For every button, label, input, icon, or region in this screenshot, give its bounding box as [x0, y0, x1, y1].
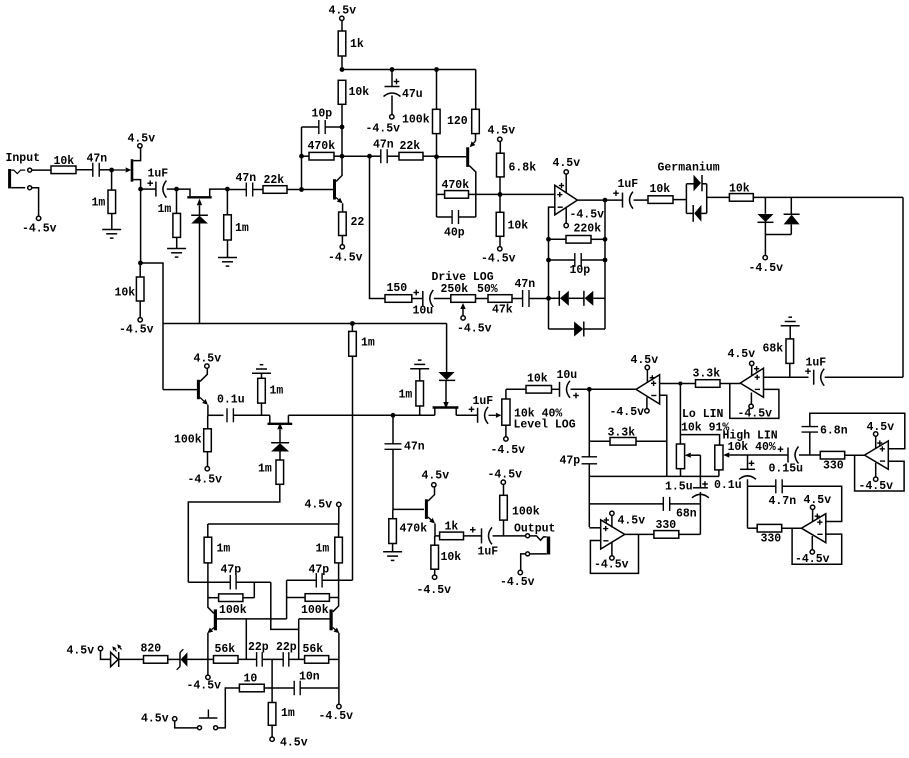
capacitor C12 10u — [552, 388, 560, 390]
resistor R37 820 — [119, 658, 144, 660]
resistor R29 3.3k fb — [589, 440, 610, 442]
pot P1 Drive 250k — [451, 295, 476, 303]
node fb 10p right — [603, 258, 608, 263]
wire C1-gate — [99, 169, 112, 171]
resistor R12 470k — [437, 193, 445, 195]
wire 470k row left — [342, 155, 370, 157]
wire R5 to Q3 base — [287, 189, 302, 191]
svg-text:10k: 10k — [349, 86, 370, 99]
resistor R19 1m — [351, 324, 353, 332]
svg-text:47n: 47n — [236, 172, 257, 185]
wire long top — [163, 323, 447, 325]
resistor R2 1m — [111, 170, 113, 190]
wire Q7 base — [393, 508, 424, 510]
resistor R44 47k — [476, 298, 489, 300]
capacitor C5 47u — [391, 70, 393, 87]
node fb 220k right — [603, 237, 608, 242]
svg-text:1m: 1m — [258, 463, 272, 476]
top rail — [342, 69, 476, 71]
capacitor C27 10u — [413, 292, 419, 294]
pot P2 Level 10k — [502, 399, 510, 425]
wire C2 out — [167, 188, 177, 190]
svg-text:4.5v: 4.5v — [728, 348, 756, 361]
svg-text:10k: 10k — [650, 183, 671, 196]
svg-text:220k: 220k — [574, 223, 602, 236]
capacitor C23 22p — [256, 652, 258, 667]
svg-text:22: 22 — [351, 216, 365, 229]
svg-text:10u: 10u — [413, 305, 434, 318]
resistor R35b 1m right — [338, 524, 340, 537]
svg-text:Output: Output — [514, 523, 555, 536]
wire 330 up — [699, 492, 701, 534]
svg-text:10k: 10k — [527, 373, 548, 386]
capacitor C21 47p left — [188, 581, 230, 583]
wire Q1 source down — [140, 189, 142, 263]
resistor R24 1k — [435, 535, 440, 537]
diode D12 zener — [168, 658, 181, 660]
svg-text:1m: 1m — [158, 203, 172, 216]
svg-text:4.5v: 4.5v — [280, 737, 308, 750]
svg-text:10k 40%: 10k 40% — [728, 441, 776, 454]
wire to multivibrator — [188, 484, 279, 582]
svg-text:47n: 47n — [373, 139, 394, 152]
op-amp U3 — [740, 368, 763, 397]
resistor R36 100k right — [287, 597, 306, 599]
wire emitter row — [208, 414, 224, 416]
svg-text:330: 330 — [761, 533, 782, 546]
capacitor C3 47n — [227, 189, 246, 191]
node input gate — [109, 168, 114, 173]
wire Lo to High — [680, 435, 719, 446]
svg-text:100k: 100k — [512, 506, 540, 519]
resistor R21 1m — [261, 373, 263, 378]
svg-text:150: 150 — [387, 282, 408, 295]
svg-text:4.5v: 4.5v — [631, 354, 659, 367]
resistor R16 10k — [634, 199, 649, 201]
capacitor C1 47n — [92, 163, 94, 177]
capacitor C13 47p — [582, 456, 598, 458]
svg-text:0.1u: 0.1u — [217, 394, 245, 407]
ground G2 — [176, 237, 178, 248]
capacitor C24 22p — [282, 652, 284, 667]
input jack J1 — [8, 169, 11, 188]
wire mv 4.5v feed — [337, 502, 341, 506]
svg-text:1m: 1m — [217, 543, 231, 556]
node fb 10p left — [546, 258, 551, 263]
svg-text:1m: 1m — [399, 389, 413, 402]
wire to germanium — [673, 199, 686, 201]
wire U1 feedback — [549, 207, 555, 298]
wire mv rail — [208, 523, 339, 525]
svg-text:10k: 10k — [115, 287, 136, 300]
svg-text:22k: 22k — [400, 140, 421, 153]
svg-text:1uF: 1uF — [618, 178, 639, 191]
resistor R4 1m — [226, 189, 228, 215]
svg-text:Level LOG: Level LOG — [514, 419, 576, 432]
wire left col to Q5 base — [140, 263, 163, 390]
node 10p right — [340, 125, 345, 130]
node after C2 — [174, 187, 179, 192]
svg-text:47p: 47p — [221, 564, 242, 577]
node U1 output — [603, 198, 608, 203]
svg-text:56k: 56k — [303, 643, 324, 656]
resistor R8 10k — [338, 80, 346, 104]
svg-text:100k: 100k — [219, 604, 247, 617]
svg-text:100k: 100k — [402, 114, 430, 127]
svg-text:1uF: 1uF — [806, 357, 827, 370]
resistor R40 10 — [239, 684, 264, 692]
svg-text:330: 330 — [656, 519, 677, 532]
resistor R41 1m bottom — [268, 703, 276, 726]
op-amp U4 — [601, 520, 625, 549]
resistor R18 10k — [136, 277, 144, 301]
svg-text:4.5v: 4.5v — [305, 499, 333, 512]
node Q1 source — [138, 187, 143, 192]
resistor R23 470k — [392, 509, 394, 518]
svg-text:-4.5v: -4.5v — [749, 262, 784, 275]
node rail 2 — [390, 67, 395, 72]
wire U3 out — [764, 376, 809, 378]
op-amp U2 — [636, 375, 660, 404]
LED D11 — [98, 646, 102, 650]
op-amp U6 — [801, 514, 825, 543]
wire right edge — [902, 197, 904, 377]
resistor R45 22k — [399, 152, 423, 160]
wire R10 down — [436, 134, 438, 217]
resistor R20 100k — [207, 415, 209, 429]
capacitor C11 1uF — [477, 408, 479, 423]
svg-text:-4.5v: -4.5v — [328, 252, 363, 265]
capacitor C6 40p — [437, 216, 453, 218]
svg-text:10k: 10k — [508, 220, 529, 233]
svg-text:10p: 10p — [312, 108, 333, 121]
capacitor C25 10n — [293, 681, 295, 696]
svg-text:0.15u: 0.15u — [769, 463, 804, 476]
svg-text:470k: 470k — [400, 523, 428, 536]
resistor R32 330 — [820, 451, 844, 459]
resistor R26 1m — [419, 369, 421, 381]
svg-text:Input: Input — [6, 152, 41, 165]
wire bottom rail — [589, 475, 719, 477]
svg-text:1m: 1m — [92, 197, 106, 210]
svg-text:68n: 68n — [676, 508, 697, 521]
svg-text:820: 820 — [141, 643, 162, 656]
wire U4 out — [625, 533, 654, 535]
wire input to R1 — [32, 169, 51, 171]
wire Q4 collector to U1 — [476, 193, 555, 195]
svg-text:10k: 10k — [54, 155, 75, 168]
resistor R17 10k — [707, 196, 730, 198]
capacitor C8 1uF — [622, 193, 624, 208]
resistor R15 220k — [549, 238, 567, 240]
resistor R39 56k right — [305, 656, 329, 664]
pot P4 High LIN — [715, 445, 723, 470]
resistor R11 120 — [475, 70, 477, 110]
capacitor C28 47n top — [380, 149, 382, 163]
svg-text:10: 10 — [244, 673, 258, 686]
wire QL collector — [208, 563, 214, 614]
wire Q8 to C11 — [456, 414, 477, 416]
svg-text:47n: 47n — [87, 153, 108, 166]
svg-text:4.5v: 4.5v — [488, 125, 516, 138]
svg-text:-4.5v: -4.5v — [319, 710, 354, 723]
wire U4 feedback — [590, 534, 638, 573]
node 47n tap — [391, 413, 396, 418]
transistor QL — [214, 609, 217, 630]
resistor R38 56k left — [214, 656, 239, 664]
svg-text:-4.5v: -4.5v — [481, 253, 516, 266]
wire C27 to pot — [434, 298, 451, 300]
svg-text:22p: 22p — [276, 641, 297, 654]
capacitor C2 1uF — [141, 188, 156, 190]
wire coupling left to right base — [271, 582, 299, 629]
wire U1 out — [577, 199, 622, 201]
capacitor C17 0.1u — [747, 455, 749, 469]
diode D4 return — [548, 298, 550, 329]
ground G5 inverted — [410, 368, 429, 370]
svg-text:10k: 10k — [729, 183, 750, 196]
svg-text:4.5v: 4.5v — [553, 157, 581, 170]
node drive feedback — [546, 296, 551, 301]
svg-text:4.5v: 4.5v — [141, 713, 169, 726]
resistor R9 1k — [338, 31, 346, 56]
wire 3.3k to U3 — [720, 383, 740, 385]
node 1m tap — [350, 321, 355, 326]
ground G4 inverted — [252, 372, 271, 374]
svg-text:4.7n: 4.7n — [769, 495, 797, 508]
resistor R28 3.3k — [696, 380, 721, 388]
svg-text:3.3k: 3.3k — [693, 368, 721, 381]
wire U2 minus — [660, 395, 667, 476]
node 6.8k junction — [498, 192, 503, 197]
resistor R13 6.8k — [499, 177, 501, 195]
svg-text:-4.5v: -4.5v — [488, 469, 523, 482]
svg-text:-4.5v: -4.5v — [491, 444, 526, 457]
wire to U2 — [589, 388, 636, 390]
svg-text:0.1u: 0.1u — [714, 479, 742, 492]
resistor R3 1m — [176, 189, 178, 213]
resistor R10 100k — [436, 70, 438, 110]
transistor Q5 — [163, 389, 197, 391]
svg-text:3.3k: 3.3k — [608, 427, 636, 440]
transistor Q3 — [333, 179, 336, 199]
op-amp U1 — [555, 185, 578, 215]
resistor R25 10k — [434, 536, 436, 545]
wire U3 feedback — [730, 384, 779, 419]
resistor R31 330 — [748, 527, 758, 529]
svg-text:1m: 1m — [316, 543, 330, 556]
svg-text:470k: 470k — [308, 140, 336, 153]
capacitor C26 1uF out — [470, 529, 476, 531]
resistor R14 10k — [499, 194, 501, 212]
capacitor C10 47n — [392, 415, 394, 444]
svg-text:4.5v: 4.5v — [67, 645, 95, 658]
svg-text:1k: 1k — [350, 38, 364, 51]
resistor R6 470k — [302, 155, 310, 157]
svg-text:-4.5v: -4.5v — [610, 406, 645, 419]
svg-text:1m: 1m — [281, 707, 295, 720]
svg-text:1m: 1m — [235, 222, 249, 235]
node rail 3 — [434, 67, 439, 72]
wiper wire level — [489, 414, 496, 416]
svg-text:4.5v: 4.5v — [804, 494, 832, 507]
svg-text:4.5v: 4.5v — [329, 5, 357, 18]
transistor Q7 — [425, 499, 428, 519]
op-amp U5 — [865, 441, 889, 469]
resistor R1 10k — [51, 166, 76, 174]
svg-text:10u: 10u — [557, 369, 578, 382]
svg-text:1m: 1m — [270, 385, 284, 398]
transistor Q2 JFET — [177, 189, 191, 196]
transistor Q1 JFET input — [114, 169, 126, 171]
node Q4 base — [434, 154, 439, 159]
capacitor C4 10p — [302, 126, 319, 128]
capacitor C18 4.7n — [748, 485, 776, 487]
diode D8 reversed — [790, 197, 792, 214]
svg-text:10p: 10p — [570, 264, 591, 277]
node drive branch — [367, 154, 372, 159]
svg-text:-4.5v: -4.5v — [570, 209, 605, 222]
capacitor C9 0.1u — [226, 408, 228, 422]
svg-text:-4.5v: -4.5v — [187, 680, 222, 693]
transistor Q4 PNP — [475, 134, 477, 141]
svg-text:1k: 1k — [445, 521, 459, 534]
diode D9 — [271, 442, 289, 444]
svg-text:56k: 56k — [215, 643, 236, 656]
node 470k right — [340, 154, 345, 159]
node left column — [138, 261, 143, 266]
pot P3 Lo LIN — [676, 444, 684, 469]
transistor Q6 JFET — [269, 415, 271, 424]
ground G9 inverted — [781, 325, 800, 327]
wire 22p junction down — [271, 659, 273, 702]
svg-text:250k: 250k — [441, 283, 469, 296]
diode D2 — [549, 297, 560, 299]
resistor R42 100k out — [501, 480, 505, 484]
svg-text:6.8k: 6.8k — [509, 162, 537, 175]
svg-text:-4.5v: -4.5v — [594, 559, 629, 572]
wire U6 feedback — [792, 528, 842, 564]
svg-text:330: 330 — [823, 460, 844, 473]
resistor R27 10k — [506, 388, 526, 390]
svg-text:100k: 100k — [301, 604, 329, 617]
wire to U4 plus — [589, 527, 600, 529]
diode D7 to -4.5v — [764, 197, 766, 213]
node fb 220k left — [546, 237, 551, 242]
capacitor C15 1.5u — [693, 487, 708, 489]
wire 68n row — [589, 503, 663, 505]
svg-text:-4.5v: -4.5v — [500, 576, 535, 589]
wire 68k down — [789, 363, 791, 377]
svg-text:6.8n: 6.8n — [820, 425, 848, 438]
wire U5 feedback — [855, 455, 905, 491]
svg-text:1m: 1m — [361, 337, 375, 350]
svg-text:1uF: 1uF — [478, 546, 499, 559]
node rail 1 — [340, 67, 345, 72]
ground G3 — [227, 240, 229, 257]
resistor R34 1m left — [207, 524, 209, 537]
wire QR collector — [333, 563, 339, 612]
wire gate rail — [288, 414, 434, 416]
svg-text:-4.5v: -4.5v — [119, 324, 154, 337]
diode D10 — [439, 379, 455, 381]
capacitor C29 47n — [512, 298, 522, 300]
wire diode pair join — [765, 234, 791, 236]
wire C9 to Q6 — [233, 414, 269, 416]
svg-text:-4.5v: -4.5v — [417, 584, 452, 597]
svg-text:1uF: 1uF — [148, 168, 169, 181]
capacitor C19 6.8n — [809, 432, 811, 455]
wire C12 to node — [571, 388, 590, 390]
resistor R43 150 — [385, 295, 412, 303]
resistor R5 22k — [253, 189, 263, 191]
svg-text:-4.5v: -4.5v — [457, 323, 492, 336]
svg-text:22k: 22k — [264, 174, 285, 187]
capacitor C7 10p — [549, 259, 575, 261]
svg-text:1.5u: 1.5u — [665, 481, 693, 494]
svg-text:470k: 470k — [442, 179, 470, 192]
transistor Q8 JFET — [434, 408, 436, 416]
svg-text:120: 120 — [447, 115, 468, 128]
svg-text:-4.5v: -4.5v — [188, 474, 223, 487]
svg-text:-4.5v: -4.5v — [366, 123, 401, 136]
svg-text:47p: 47p — [560, 455, 581, 468]
node U2 out — [678, 382, 682, 386]
svg-text:4.5v: 4.5v — [618, 515, 646, 528]
wire R1-C1 — [76, 169, 93, 171]
diode D3 — [569, 297, 584, 299]
resistor R35 100k left — [208, 597, 219, 599]
resistor R22 1m — [276, 460, 284, 484]
svg-text:47k: 47k — [492, 304, 513, 317]
svg-text:47u: 47u — [402, 88, 423, 101]
svg-text:Germanium: Germanium — [658, 162, 720, 175]
resistor R7 22 — [339, 212, 347, 236]
wire U2 plus out — [660, 383, 696, 385]
capacitor C16 0.15u — [778, 448, 784, 450]
capacitor C20 1uF — [805, 370, 811, 372]
wire left gate chain vert — [187, 581, 189, 583]
svg-text:47p: 47p — [309, 564, 330, 577]
svg-text:47n: 47n — [404, 441, 425, 454]
svg-text:10n: 10n — [299, 671, 320, 684]
wire to output jack — [493, 535, 526, 537]
wire U2 node down — [588, 389, 590, 457]
svg-text:47n: 47n — [515, 278, 536, 291]
ground G1 — [111, 214, 113, 230]
svg-text:4.5v: 4.5v — [867, 421, 895, 434]
wire clip row — [753, 196, 903, 198]
svg-text:4.5v: 4.5v — [422, 470, 450, 483]
node U2 input — [587, 387, 592, 392]
node Q2 source — [225, 187, 230, 192]
resistor R33 68k — [786, 339, 794, 364]
transistor QR — [330, 609, 333, 630]
svg-text:10k: 10k — [441, 551, 462, 564]
svg-text:4.5v: 4.5v — [194, 353, 222, 366]
svg-text:40p: 40p — [444, 227, 465, 240]
wire base feedback vertical — [301, 127, 303, 190]
svg-text:-4.5v: -4.5v — [22, 223, 57, 236]
svg-text:4.5v: 4.5v — [128, 133, 156, 146]
diode D1 gate clamp — [191, 214, 208, 216]
svg-text:22p: 22p — [248, 641, 269, 654]
wire long vertical — [352, 356, 354, 580]
svg-text:68k: 68k — [763, 343, 784, 356]
wire wiper down — [699, 455, 701, 488]
wire 0.15u to 330 — [799, 454, 820, 456]
capacitor C14 68n — [662, 497, 664, 511]
